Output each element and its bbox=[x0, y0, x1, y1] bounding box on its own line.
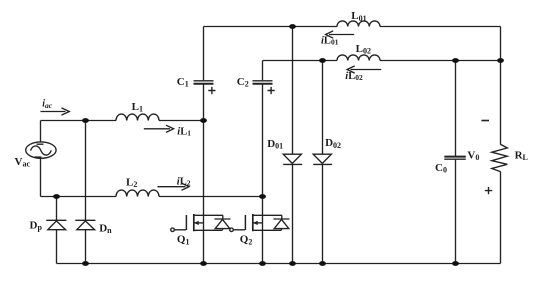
svg-text:iL2: iL2 bbox=[177, 176, 191, 187]
svg-text:D02: D02 bbox=[325, 137, 341, 150]
svg-text:Dn: Dn bbox=[99, 222, 112, 235]
svg-text:C0: C0 bbox=[435, 162, 447, 175]
svg-text:Q2: Q2 bbox=[240, 234, 253, 247]
svg-text:iL02: iL02 bbox=[345, 71, 363, 82]
svg-text:iac: iac bbox=[42, 99, 53, 111]
svg-text:C2: C2 bbox=[237, 76, 249, 89]
svg-text:Vac: Vac bbox=[15, 156, 31, 169]
svg-text:L02: L02 bbox=[356, 43, 371, 56]
svg-text:L01: L01 bbox=[351, 10, 366, 23]
svg-text:V0: V0 bbox=[467, 150, 479, 163]
svg-text:RL: RL bbox=[515, 150, 528, 163]
svg-text:Q1: Q1 bbox=[177, 234, 190, 247]
svg-text:L2: L2 bbox=[126, 177, 137, 190]
svg-text:Dp: Dp bbox=[30, 219, 43, 232]
svg-text:L1: L1 bbox=[132, 101, 143, 114]
svg-text:iL01: iL01 bbox=[321, 36, 339, 47]
svg-text:C1: C1 bbox=[177, 76, 189, 89]
svg-text:D01: D01 bbox=[267, 138, 283, 151]
svg-text:iL1: iL1 bbox=[177, 127, 191, 138]
